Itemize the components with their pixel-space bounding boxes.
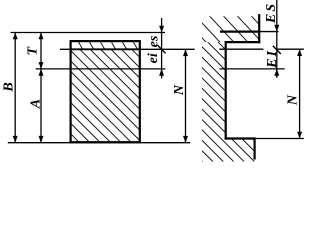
svg-text:es: es [147, 35, 162, 47]
svg-text:B: B [2, 82, 17, 92]
svg-text:ei: ei [146, 53, 161, 63]
svg-text:N: N [172, 84, 187, 96]
svg-text:T: T [25, 46, 40, 56]
svg-text:A: A [29, 99, 44, 109]
svg-text:EI: EI [265, 49, 280, 69]
svg-text:N: N [286, 94, 301, 106]
svg-text:ES: ES [264, 2, 279, 24]
